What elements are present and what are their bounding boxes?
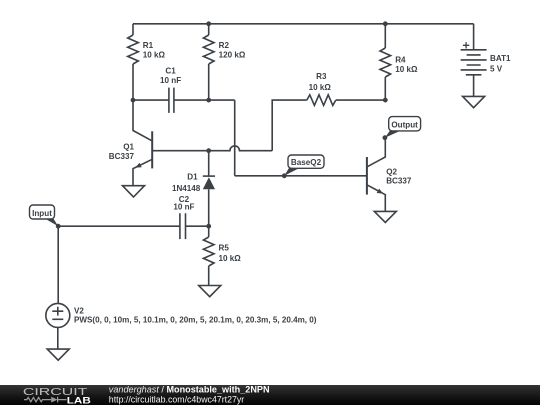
svg-text:BC337: BC337 xyxy=(386,177,412,186)
wire R2 top lead xyxy=(208,24,210,35)
node dot R4 top xyxy=(383,21,388,26)
logo diode triangle xyxy=(51,397,57,403)
svg-text:R3: R3 xyxy=(316,72,327,81)
source V2 minus sign xyxy=(52,318,63,320)
ground battery xyxy=(463,96,485,107)
footer bar xyxy=(0,385,540,405)
svg-text:10 kΩ: 10 kΩ xyxy=(309,83,332,92)
capacitor C2 xyxy=(180,213,186,239)
svg-text:10 kΩ: 10 kΩ xyxy=(395,65,418,74)
wire node to link column xyxy=(209,99,235,101)
transistor Q1 base bar xyxy=(151,131,153,168)
svg-text:vanderghast / Monostable_with_: vanderghast / Monostable_with_2NPN xyxy=(109,384,270,394)
source V2 circle xyxy=(46,303,70,327)
diode D1 triangle xyxy=(203,177,215,189)
resistor R4 xyxy=(380,48,391,77)
battery BAT1 plus sign xyxy=(463,42,469,48)
svg-text:BaseQ2: BaseQ2 xyxy=(291,158,322,167)
svg-text:R2: R2 xyxy=(219,41,230,50)
transistor Q1 emitter xyxy=(133,159,152,185)
wire R5 bottom lead xyxy=(208,266,210,286)
flag Input xyxy=(30,205,59,226)
resistor R3 xyxy=(307,95,336,106)
diode D1 top lead xyxy=(208,151,210,176)
resistor R5 xyxy=(203,237,214,266)
node dot Input corner xyxy=(56,224,61,229)
resistor R1 xyxy=(128,35,139,64)
svg-text:LAB: LAB xyxy=(67,395,91,405)
transistor Q1 collector xyxy=(133,100,152,141)
wire R3 left bend xyxy=(272,100,307,151)
svg-text:Output: Output xyxy=(391,120,418,129)
resistor R2 xyxy=(203,35,214,64)
svg-text:C1: C1 xyxy=(165,66,176,75)
logo resistor squiggle xyxy=(24,397,51,401)
wire R5 top lead xyxy=(208,226,210,237)
transistor Q2 collector xyxy=(367,138,385,167)
ground Q1 xyxy=(123,186,145,197)
wire Q2 base link xyxy=(235,175,366,177)
svg-text:1N4148: 1N4148 xyxy=(172,184,201,193)
svg-text:5 V: 5 V xyxy=(490,65,503,74)
flag Output xyxy=(385,117,421,138)
wire link column vertical xyxy=(234,100,236,176)
svg-text:R1: R1 xyxy=(143,41,154,50)
wire R4 top lead xyxy=(384,24,386,48)
svg-text:Input: Input xyxy=(32,209,52,218)
svg-text:V2: V2 xyxy=(74,306,84,315)
node dot R1-C1 xyxy=(131,98,136,103)
svg-text:10 nF: 10 nF xyxy=(173,202,194,211)
ground Q2 xyxy=(374,211,396,222)
wire R3 right xyxy=(336,99,386,101)
wire V2 bottom lead xyxy=(57,327,59,349)
svg-text:Q2: Q2 xyxy=(386,167,397,176)
wire R1 bottom lead xyxy=(132,64,134,100)
wire C1 right to node xyxy=(174,99,209,101)
wire battery top lead xyxy=(473,24,475,50)
node dot R2-C1 xyxy=(206,98,211,103)
ground R5 xyxy=(199,286,221,297)
svg-text:http://circuitlab.com/c4bwc47r: http://circuitlab.com/c4bwc47rt27yr xyxy=(109,394,244,404)
wire battery bottom lead xyxy=(473,75,475,97)
node dot Output xyxy=(383,135,388,140)
wire V2 top lead xyxy=(57,226,59,303)
wire input horizontal xyxy=(58,225,180,227)
svg-text:10 kΩ: 10 kΩ xyxy=(219,254,242,263)
transistor Q2 emitter xyxy=(367,185,385,212)
ground V2 xyxy=(47,349,69,360)
svg-text:BAT1: BAT1 xyxy=(490,54,511,63)
wire R2 bottom lead xyxy=(208,64,210,100)
transistor Q1 emitter arrow xyxy=(135,163,142,168)
node dot C2-R5-D1 xyxy=(206,224,211,229)
battery BAT1 plates xyxy=(461,50,487,75)
svg-text:120 kΩ: 120 kΩ xyxy=(219,51,246,60)
diode D1 bottom lead xyxy=(208,189,210,226)
svg-text:D1: D1 xyxy=(187,173,198,182)
wire top rail xyxy=(133,23,474,25)
svg-text:10 nF: 10 nF xyxy=(160,76,181,85)
wire R1 column top lead xyxy=(132,24,134,35)
wire C2 right xyxy=(186,225,209,227)
capacitor C1 xyxy=(169,88,174,113)
node dot Q1 base-D1 xyxy=(206,148,211,153)
svg-text:R4: R4 xyxy=(395,56,406,65)
svg-text:R5: R5 xyxy=(219,244,230,253)
node dot R2 top xyxy=(206,21,211,26)
logo diode bar xyxy=(58,397,67,403)
diode D1 cathode bar xyxy=(203,175,215,177)
flag BaseQ2 xyxy=(284,155,324,176)
node dot BaseQ2 xyxy=(282,173,287,178)
source V2 plus sign xyxy=(52,307,63,316)
wire Q1 base with hop xyxy=(153,146,272,151)
svg-text:PWS(0, 0, 10m, 5, 10.1m, 0, 20: PWS(0, 0, 10m, 5, 10.1m, 0, 20m, 5, 20.1… xyxy=(74,316,317,325)
wire C1 left xyxy=(133,99,169,101)
svg-text:10 kΩ: 10 kΩ xyxy=(143,51,166,60)
transistor Q2 emitter arrow xyxy=(377,189,384,194)
svg-text:BC337: BC337 xyxy=(109,152,135,161)
transistor Q2 base bar xyxy=(366,157,368,195)
svg-text:Q1: Q1 xyxy=(123,143,134,152)
wire R4 bottom lead xyxy=(384,77,386,100)
node dot R3-R4 xyxy=(383,98,388,103)
